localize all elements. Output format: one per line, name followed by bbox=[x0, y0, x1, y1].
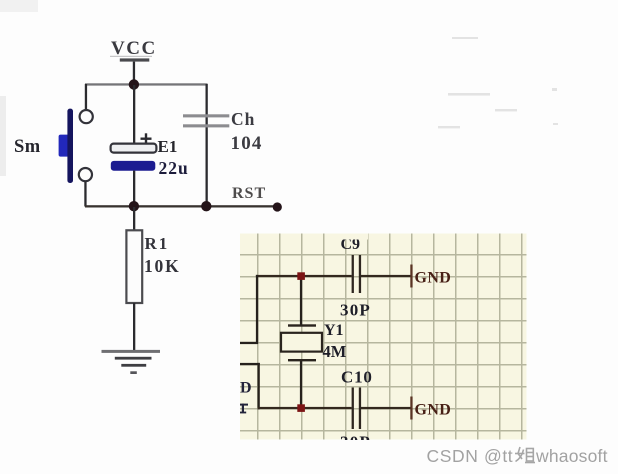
watermark CJK glyph bbox=[515, 447, 535, 463]
wire R1 bottom lead bbox=[133, 303, 135, 351]
svg-text:CSDN @tt: CSDN @tt bbox=[427, 446, 514, 466]
svg-text:whaosoft: whaosoft bbox=[535, 446, 608, 466]
ground symbol bar 3 bbox=[121, 364, 146, 367]
svg-text:E1: E1 bbox=[158, 137, 178, 156]
power port VCC bar bbox=[110, 56, 152, 62]
capacitor E1 bottom plate (polarized, blue) bbox=[111, 161, 156, 171]
capacitor Ch top plate bbox=[183, 114, 229, 117]
capacitor C9 right plate bbox=[359, 255, 361, 293]
wire crystal top lead bbox=[300, 276, 302, 326]
switch Sm top terminal bbox=[80, 110, 93, 123]
svg-text:Y1: Y1 bbox=[324, 322, 344, 339]
crystal Y1 top plate bbox=[288, 324, 316, 326]
capacitor E1 plus sign bbox=[141, 133, 152, 144]
capacitor E1 top plate bbox=[111, 144, 157, 153]
capacitor C10 right plate bbox=[359, 388, 361, 430]
crystal Y1 body bbox=[281, 333, 322, 352]
svg-text:4M: 4M bbox=[323, 342, 347, 361]
svg-text:D: D bbox=[240, 380, 252, 397]
wire E1 bottom lead bbox=[133, 171, 135, 207]
svg-text:Sm: Sm bbox=[14, 137, 41, 157]
junction square top bbox=[297, 272, 305, 280]
switch Sm bottom terminal bbox=[79, 168, 92, 181]
svg-text:R1: R1 bbox=[145, 234, 170, 253]
capacitor C10 left plate bbox=[352, 388, 354, 430]
wire crystal bottom lead bbox=[300, 361, 302, 409]
svg-text:22u: 22u bbox=[159, 158, 189, 178]
svg-text:C10: C10 bbox=[341, 368, 373, 387]
junction node bottom rail at Ch bbox=[201, 201, 211, 211]
svg-text:GND: GND bbox=[415, 270, 452, 287]
switch Sm actuator bar bbox=[67, 109, 73, 183]
capacitor C9 left plate bbox=[352, 255, 354, 293]
power port GND top bar bbox=[410, 265, 412, 288]
wire switch bottom to bottom rail bbox=[84, 182, 86, 207]
switch Sm actuator knob bbox=[59, 135, 70, 157]
wire bottom net bbox=[258, 407, 412, 409]
wire top net (XTAL1 to GND cap rail) bbox=[256, 275, 412, 277]
ground symbol bar 4 bbox=[130, 371, 137, 374]
node RST endpoint dot bbox=[273, 202, 282, 211]
resistor R1 body bbox=[126, 230, 142, 303]
faint artifacts upper right bbox=[438, 37, 558, 128]
wire VCC to top rail bbox=[133, 62, 135, 85]
svg-text:10K: 10K bbox=[144, 256, 181, 276]
power port GND bottom bar bbox=[410, 397, 412, 420]
wire Ch branch vertical bbox=[206, 84, 208, 206]
junction square bottom bbox=[297, 404, 305, 412]
svg-text:Ch: Ch bbox=[231, 109, 255, 129]
svg-text:104: 104 bbox=[231, 133, 263, 154]
ground symbol bar 2 bbox=[115, 357, 152, 360]
crystal Y1 bottom plate bbox=[288, 359, 316, 361]
svg-text:RST: RST bbox=[232, 185, 266, 202]
wire vertical from lower stub to bottom net bbox=[258, 363, 260, 410]
wire top-left drop to switch bbox=[85, 84, 87, 110]
label V (clipped pin text) bbox=[238, 404, 248, 414]
svg-text:30P: 30P bbox=[340, 301, 371, 320]
wire bottom rail to RST bbox=[85, 205, 278, 207]
junction node bottom rail center bbox=[129, 201, 139, 211]
wire stub to left edge (lower) bbox=[240, 363, 260, 365]
capacitor Ch bottom plate bbox=[183, 124, 229, 127]
wire E1 top lead bbox=[133, 85, 135, 144]
svg-text:GND: GND bbox=[415, 402, 452, 419]
junction node at VCC rail bbox=[129, 79, 139, 89]
wire left vertical from top net bbox=[256, 275, 258, 344]
wire R1 top lead bbox=[133, 207, 135, 231]
ground symbol bar 1 bbox=[102, 350, 161, 353]
wire stub to left edge (upper) bbox=[240, 342, 258, 344]
label C9 bbox=[334, 234, 368, 254]
grid sheet background bbox=[240, 234, 527, 440]
wire top rail bbox=[85, 83, 208, 85]
